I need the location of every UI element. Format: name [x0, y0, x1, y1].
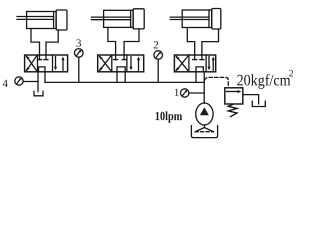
right cell down arrow [130, 57, 132, 68]
wire gauge G1 to pump line [189, 92, 204, 94]
wire cylinder3 port A to valve V3 port A [187, 28, 194, 56]
wire valve V3 tank port to main line [195, 72, 197, 83]
wire gauge G2 to main line [157, 59, 159, 82]
pump P1 [196, 103, 213, 125]
cylinder CY2 [92, 9, 145, 29]
right cell up arrow [138, 60, 140, 71]
label 20kgf/cm2 [237, 75, 243, 86]
center cell P-T bypass [39, 67, 46, 72]
drain tank for relief valve [252, 101, 265, 106]
main pressure line [45, 81, 204, 83]
wire valve V2 tank port to main line [116, 72, 118, 83]
valve V3 4/3 directional valve [174, 55, 215, 72]
cylinder CY1 [17, 10, 67, 30]
wire gauge G3 to main line [78, 57, 80, 82]
label 1 [175, 89, 179, 96]
label 4 [3, 80, 8, 87]
wire valve V2 pressure port to main line [124, 72, 126, 83]
pressure gauge G4 [15, 77, 23, 85]
wire valve V1 pressure port to main line [44, 72, 46, 83]
strainer S1 [195, 128, 213, 132]
wire relief valve outlet to drain tank [243, 95, 259, 104]
center cell P-T bypass [117, 67, 125, 72]
pressure gauge G3 [75, 49, 84, 58]
valve V2 4/3 directional valve [98, 55, 144, 72]
valve V1 4/3 directional valve [25, 55, 68, 72]
relief valve RV1 [225, 88, 243, 104]
pressure gauge G1 [181, 89, 189, 97]
wire valve V3 pressure port down to pump [203, 72, 205, 103]
wire cylinder2 port B to valve V2 port B [124, 29, 139, 55]
right cell up arrow [62, 60, 64, 71]
center cell blocked ports [194, 55, 196, 60]
center cell blocked ports [39, 55, 41, 60]
label 10lpm [156, 112, 160, 120]
right cell down arrow [208, 57, 210, 68]
wire cylinder3 port B to valve V3 port B [202, 29, 219, 55]
label 2 [154, 41, 158, 48]
label 3 [76, 39, 81, 46]
wire valve V1 tank port to drain tank [37, 72, 39, 92]
wire pump suction [203, 125, 205, 128]
relief valve pilot line (dashed) [204, 77, 228, 87]
drain tank under valve V1 [34, 91, 43, 96]
pressure gauge G2 [154, 51, 163, 60]
wire cylinder1 port B to valve V1 port B [46, 30, 58, 55]
reservoir tank T1 [191, 126, 217, 138]
center cell blocked ports [115, 55, 117, 60]
wire gauge G4 to valve V1 tank line [23, 81, 38, 83]
cylinder CY3 [170, 9, 221, 30]
wire cylinder1 port A to valve V1 port A [31, 29, 40, 56]
wire cylinder2 port A to valve V2 port A [108, 27, 116, 55]
center cell P-T bypass [196, 67, 203, 72]
right cell up arrow [212, 60, 214, 71]
crossed arrows left cell [177, 56, 188, 70]
crossed arrows left cell [27, 56, 37, 70]
right cell down arrow [55, 57, 57, 68]
crossed arrows left cell [100, 56, 111, 70]
relief valve spring [228, 104, 237, 117]
